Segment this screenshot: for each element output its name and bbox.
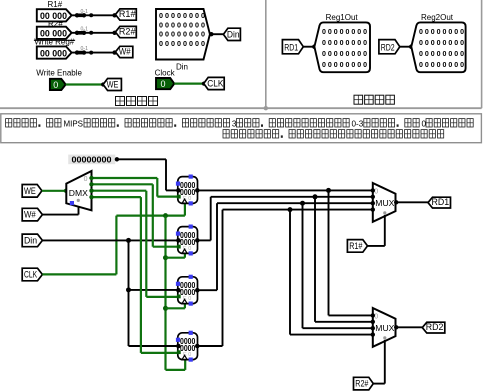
splitter bits 0-1 on R1# wire bbox=[77, 14, 85, 18]
node clk reg0 branch bbox=[184, 204, 186, 216]
svg-text:0-1: 0-1 bbox=[81, 26, 89, 32]
node Din reg2 branch bbox=[126, 287, 131, 292]
description text box bbox=[1, 114, 482, 143]
panel right border bbox=[481, 0, 483, 108]
register R1 (reg1) bbox=[178, 227, 198, 254]
node R2# tunnel joint bbox=[112, 31, 116, 35]
tunnel Din (top panel) bbox=[223, 28, 240, 40]
register R0 (reg0) bbox=[178, 177, 198, 204]
wire DMX out2 to reg2 EN bbox=[92, 190, 147, 192]
wire MUX1 out to RD1 bbox=[396, 201, 428, 203]
tunnel Din (circuit) bbox=[22, 234, 42, 247]
svg-text:00000000: 00000000 bbox=[72, 154, 112, 164]
svg-text:W#: W# bbox=[24, 210, 36, 221]
wire R2# to MUX2 select bbox=[373, 383, 385, 385]
wire MUX2 out to RD2 bbox=[396, 326, 422, 328]
svg-text:0 0 0 0 0 0 0 0: 0 0 0 0 0 0 0 0 bbox=[322, 27, 367, 36]
svg-text:0 0 0 0 0 0 0 0: 0 0 0 0 0 0 0 0 bbox=[322, 49, 367, 58]
svg-text:0 0 0 0 0 0 0 0: 0 0 0 0 0 0 0 0 bbox=[419, 27, 464, 36]
svg-text:WE: WE bbox=[107, 79, 119, 90]
svg-text:MUX: MUX bbox=[375, 198, 394, 208]
wire R1# to MUX1 select bbox=[368, 245, 385, 247]
description line 2 (CJK) bbox=[223, 130, 229, 138]
wire Clock pin to tunnel bbox=[174, 82, 203, 84]
splitter bits 0-1 on R2# wire bbox=[77, 31, 85, 35]
node row3 to mux2 bbox=[288, 207, 293, 212]
register R3 (reg3) bbox=[178, 333, 198, 360]
svg-text:0-1: 0-1 bbox=[81, 46, 89, 52]
svg-text:RD1: RD1 bbox=[284, 43, 298, 54]
wire reg1 Q to MUX row1 bbox=[198, 239, 211, 241]
wire CLK trunk bbox=[42, 273, 116, 275]
svg-text:R1#: R1# bbox=[119, 9, 136, 20]
svg-text:WE: WE bbox=[24, 186, 36, 197]
svg-text:Clock: Clock bbox=[155, 68, 176, 77]
tunnel RD2 (top panel) bbox=[379, 40, 400, 54]
input pin W# (5-bit) bbox=[37, 46, 72, 58]
tunnel R2# (circuit) bbox=[354, 377, 374, 390]
output pin Reg2Out (32-bit) bbox=[411, 22, 465, 72]
register R2 (reg2) bbox=[178, 277, 198, 304]
tunnel RD1 (top panel) bbox=[282, 40, 303, 54]
svg-text:CLK: CLK bbox=[24, 270, 38, 281]
wire RD2 to pin bbox=[400, 46, 412, 48]
tunnel W# (circuit) bbox=[22, 208, 42, 221]
svg-text:0: 0 bbox=[374, 189, 378, 196]
tunnel CLK (top panel) bbox=[204, 77, 225, 89]
svg-text:RD2: RD2 bbox=[426, 322, 444, 333]
wire probe to reg0 D bbox=[117, 158, 166, 160]
input pin WE (1-bit, value 0) bbox=[50, 79, 66, 90]
svg-text:Din: Din bbox=[24, 236, 37, 247]
description line 1 (CJK) bbox=[6, 119, 12, 127]
wire WE pin to tunnel bbox=[66, 83, 103, 85]
svg-text:00 000: 00 000 bbox=[40, 48, 67, 59]
svg-text:R1#: R1# bbox=[48, 0, 63, 9]
tunnel RD2 (circuit) bbox=[422, 322, 445, 333]
wire reg3 Q to MUX row3 bbox=[198, 345, 223, 347]
svg-text:0-3: 0-3 bbox=[352, 119, 364, 128]
svg-text:Reg2Out: Reg2Out bbox=[421, 13, 454, 22]
wire reg2 Q to MUX row2 bbox=[198, 289, 218, 291]
svg-text:0 0 0 0 0 0 0 0: 0 0 0 0 0 0 0 0 bbox=[322, 60, 367, 69]
wire Din pin to tunnel bbox=[210, 33, 224, 35]
svg-text:0: 0 bbox=[53, 80, 58, 90]
tunnel R2# bbox=[115, 26, 136, 37]
svg-text:MUX: MUX bbox=[375, 323, 394, 333]
svg-text:0 0 0 0 0 0 0 0: 0 0 0 0 0 0 0 0 bbox=[159, 11, 205, 20]
tunnel WE (circuit) bbox=[22, 185, 42, 198]
input pin R2# (5-bit) bbox=[37, 27, 72, 39]
svg-text:0 0 0 0 0 0 0 0: 0 0 0 0 0 0 0 0 bbox=[322, 38, 367, 47]
tunnel R1# bbox=[115, 9, 136, 20]
svg-text:R1#: R1# bbox=[349, 241, 363, 252]
node row0 to mux2 bbox=[326, 188, 331, 193]
svg-text:0 0 0 0 0 0 0 0: 0 0 0 0 0 0 0 0 bbox=[419, 49, 464, 58]
svg-text:Write Reg#: Write Reg# bbox=[34, 37, 74, 46]
tunnel RD1 (circuit) bbox=[428, 197, 451, 208]
svg-text:RD1: RD1 bbox=[432, 197, 450, 208]
label output-pins panel (CJK) bbox=[354, 95, 363, 104]
panel bottom border bbox=[0, 107, 482, 109]
node row2 to mux2 bbox=[300, 201, 305, 206]
svg-text:RD2: RD2 bbox=[381, 43, 395, 54]
DMX output pin dots bbox=[89, 176, 93, 180]
wire clk vertical bbox=[164, 216, 166, 370]
svg-text:0 0 0 0 0 0 0 0: 0 0 0 0 0 0 0 0 bbox=[159, 20, 205, 29]
tunnel WE (top panel) bbox=[103, 79, 121, 91]
svg-text:MIPS: MIPS bbox=[64, 119, 84, 128]
wire W# to DMX select bbox=[42, 214, 78, 216]
svg-text:CLK: CLK bbox=[207, 78, 224, 89]
wire clk reg3 branch bbox=[166, 369, 186, 371]
node W# tunnel joint bbox=[112, 50, 116, 54]
svg-text:R2#: R2# bbox=[119, 27, 136, 38]
label input-pins panel (CJK) bbox=[116, 97, 125, 106]
input pin Clock (1-bit, value 0) bbox=[156, 78, 174, 89]
input pin Din (32-bit) bbox=[156, 9, 210, 60]
svg-text:0 0 0 0 0 0 0 0: 0 0 0 0 0 0 0 0 bbox=[159, 39, 205, 48]
svg-text:0 0 0 0 0 0 0 0: 0 0 0 0 0 0 0 0 bbox=[419, 60, 464, 69]
svg-text:W#: W# bbox=[119, 46, 131, 57]
wire pin W# to tunnel bbox=[72, 52, 115, 54]
wire RD1 to pin bbox=[303, 46, 314, 48]
wire pin R2# to tunnel bbox=[72, 32, 115, 34]
probe value 00000000 bbox=[68, 155, 115, 165]
node Din split bbox=[126, 238, 131, 243]
svg-text:Din: Din bbox=[227, 29, 240, 40]
svg-text:0: 0 bbox=[84, 176, 88, 183]
wire reg0 Q to MUX row0 bbox=[198, 189, 373, 191]
multiplexer MUX2 bbox=[373, 308, 396, 347]
demultiplexer DMX bbox=[66, 171, 91, 210]
wire DMX out3 to reg3 EN bbox=[92, 196, 141, 198]
wire DMX out1 to reg1 EN bbox=[92, 183, 153, 185]
wire WE tunnel to DMX bbox=[42, 190, 66, 192]
panel divider line bbox=[265, 0, 267, 108]
node clk reg1 branch bbox=[163, 255, 168, 260]
svg-text:0: 0 bbox=[374, 314, 378, 321]
svg-text:0 0 0 0 0 0 0 0: 0 0 0 0 0 0 0 0 bbox=[159, 30, 205, 39]
svg-text:Reg1Out: Reg1Out bbox=[326, 13, 359, 22]
wire DMX out0 to reg0 EN bbox=[92, 177, 158, 179]
tunnel R1# (circuit) bbox=[347, 240, 367, 253]
wire Din reg3 branch bbox=[129, 345, 179, 347]
svg-text:0 0 0 0 0 0 0 0: 0 0 0 0 0 0 0 0 bbox=[419, 38, 464, 47]
tunnel W# bbox=[115, 46, 132, 57]
svg-text:Din: Din bbox=[176, 62, 188, 71]
input pin R1# (5-bit) bbox=[37, 9, 72, 21]
wire Din trunk bbox=[42, 239, 178, 241]
node R1# tunnel joint bbox=[112, 13, 116, 17]
multiplexer MUX1 bbox=[373, 183, 396, 222]
svg-text:0: 0 bbox=[161, 79, 166, 89]
splitter bits 0-1 on W# wire bbox=[77, 51, 85, 55]
svg-text:R2#: R2# bbox=[355, 379, 369, 390]
wire pin R1# to tunnel bbox=[72, 14, 115, 16]
svg-text:DMX: DMX bbox=[69, 188, 88, 198]
svg-text:Write Enable: Write Enable bbox=[36, 69, 82, 78]
svg-text:0-1: 0-1 bbox=[81, 9, 89, 15]
node row1 to mux2 bbox=[313, 194, 318, 199]
tunnel CLK (circuit) bbox=[22, 268, 42, 281]
node clk reg2 branch bbox=[163, 306, 168, 311]
output pin Reg1Out (32-bit) bbox=[314, 22, 370, 72]
